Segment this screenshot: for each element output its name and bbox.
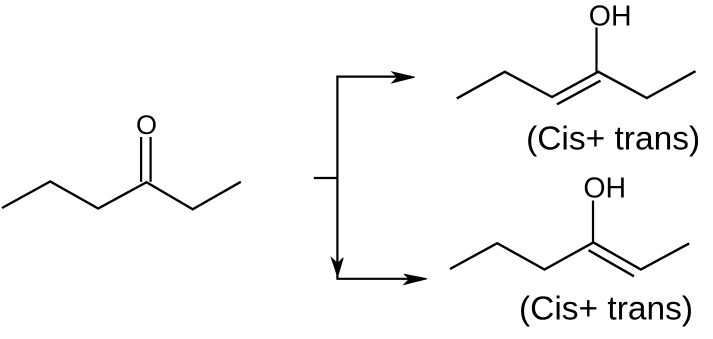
C=O double bond line 1 <box>140 137 142 182</box>
svg-text:OH: OH <box>583 173 626 205</box>
top branch arrowhead <box>392 72 415 83</box>
svg-text:OH: OH <box>589 1 632 33</box>
bottom branch arrowhead <box>404 274 427 284</box>
bottom branch arrow shaft <box>336 278 410 280</box>
hex-3-en-3-ol skeleton chain <box>457 71 696 98</box>
svg-text:(Cis+ trans): (Cis+ trans) <box>519 291 693 328</box>
svg-text:O: O <box>136 110 157 140</box>
3-hexanone skeleton chain <box>2 182 241 210</box>
C3-OH bond <box>595 28 597 72</box>
C3-OH bond <box>592 201 594 243</box>
C3=C4 inner double bond line <box>557 81 601 105</box>
down arrowhead <box>331 258 343 277</box>
C=O double bond line 2 <box>150 137 152 182</box>
svg-text:(Cis+ trans): (Cis+ trans) <box>526 121 700 158</box>
top branch arrow shaft <box>336 75 398 77</box>
reaction arrow vertical trunk <box>336 76 338 279</box>
reagent tick mark <box>314 177 338 179</box>
hex-2-en-3-ol skeleton chain <box>450 242 689 269</box>
C2=C3 inner double bond line <box>589 250 635 276</box>
